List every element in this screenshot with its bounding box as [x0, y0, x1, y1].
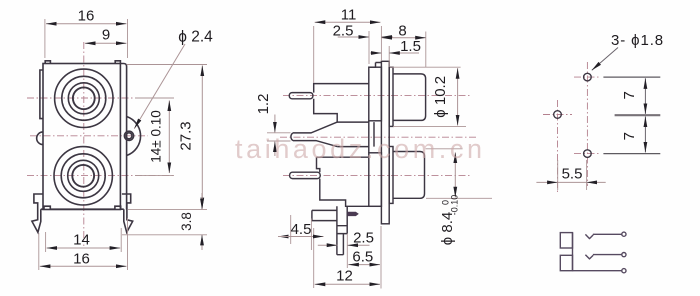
- svg-text:3- ϕ1.8: 3- ϕ1.8: [611, 32, 664, 49]
- svg-text:6.5: 6.5: [352, 248, 373, 265]
- svg-text:11: 11: [341, 7, 357, 24]
- svg-text:4.5: 4.5: [291, 221, 312, 238]
- svg-text:ϕ 2.4: ϕ 2.4: [178, 29, 213, 46]
- svg-text:3.8: 3.8: [179, 212, 194, 231]
- svg-text:7: 7: [621, 91, 638, 99]
- svg-text:14± 0.10: 14± 0.10: [149, 110, 164, 162]
- svg-text:16: 16: [73, 251, 90, 268]
- svg-text:7: 7: [621, 132, 638, 140]
- svg-text:1.5: 1.5: [400, 38, 421, 55]
- svg-text:16: 16: [78, 8, 95, 25]
- svg-text:12: 12: [336, 268, 353, 285]
- svg-text:9: 9: [102, 27, 110, 44]
- svg-text:14: 14: [73, 232, 90, 249]
- svg-text:ϕ 10.2: ϕ 10.2: [432, 76, 449, 118]
- svg-text:ϕ 8.4: ϕ 8.4: [439, 212, 456, 245]
- svg-text:1.2: 1.2: [255, 94, 272, 115]
- svg-text:-0.10: -0.10: [450, 195, 460, 216]
- svg-text:2.5: 2.5: [333, 23, 354, 40]
- svg-text:8: 8: [398, 23, 406, 40]
- svg-text:27.3: 27.3: [178, 121, 195, 150]
- svg-text:5.5: 5.5: [562, 165, 583, 182]
- svg-text:2.5: 2.5: [353, 229, 374, 246]
